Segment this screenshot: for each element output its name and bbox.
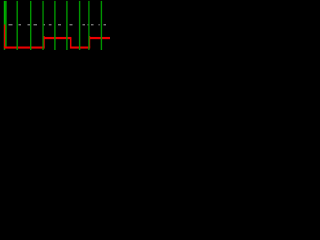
grid line 3 <box>42 1 43 50</box>
grid line 8 <box>101 1 102 50</box>
trigger cursor bar right column (bright green, ends at low band) <box>5 1 6 47</box>
grid line 5 <box>66 1 67 50</box>
red trace rising edge 2 <box>89 36 91 47</box>
trigger cursor bar left column (bright green, full height) <box>4 1 5 50</box>
dashed center line <box>9 24 107 25</box>
grid line 7 <box>88 1 89 50</box>
grid line 6 <box>79 1 80 50</box>
grid line 4 <box>54 1 55 50</box>
background <box>0 0 110 50</box>
grid line 1 <box>17 1 18 50</box>
red trace rising edge 1 <box>43 36 45 47</box>
red trace low segment 2 <box>70 47 90 49</box>
grid line 2 <box>30 1 31 50</box>
red trace falling edge 1 <box>70 38 72 47</box>
red trace left vertical edge <box>4 25 5 48</box>
red trace low segment 1 <box>4 47 45 49</box>
red trace high segment 2 <box>89 37 110 39</box>
red trace high segment 1 <box>43 37 71 39</box>
